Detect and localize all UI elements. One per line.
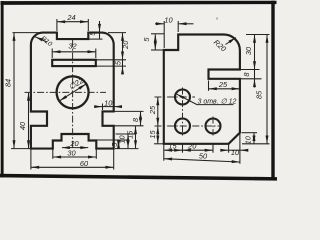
ext chamfer top xyxy=(242,132,258,134)
dim 24 xyxy=(57,21,88,23)
hole bottom-left D12 xyxy=(175,119,190,134)
svg-text:15: 15 xyxy=(148,130,157,139)
ext bottom corner xyxy=(163,144,165,161)
dim 25 left xyxy=(157,97,159,125)
dim 8 right xyxy=(254,70,256,79)
ext notch bottom right xyxy=(114,125,144,127)
centerline holes vertical left xyxy=(182,88,184,136)
svg-text:50: 50 xyxy=(199,151,208,160)
dim 30 xyxy=(53,156,96,158)
slot 32x5 xyxy=(52,60,96,66)
dim 32 xyxy=(53,51,96,53)
border frame right xyxy=(271,1,274,181)
centerline horizontal left view xyxy=(25,91,107,93)
ext 5 bottom xyxy=(151,49,164,51)
circle D22 xyxy=(57,76,89,108)
svg-text:40: 40 xyxy=(18,121,27,130)
ext hole1 down xyxy=(182,144,184,153)
svg-text:15: 15 xyxy=(168,141,177,150)
ext 32 right xyxy=(95,49,97,59)
border frame bottom xyxy=(0,174,277,181)
ext step 134 xyxy=(116,133,137,135)
dim 10 chamfer v xyxy=(253,133,255,143)
dim 10 notch left part xyxy=(96,106,103,108)
centerline vertical left view xyxy=(72,40,74,148)
labels left figure xyxy=(3,13,140,168)
leader R10 xyxy=(35,37,47,42)
svg-text:20: 20 xyxy=(69,139,79,148)
dim 10 bottom right arrow xyxy=(240,149,246,151)
ext top-right xyxy=(108,32,126,34)
plate body outline right view xyxy=(164,35,240,144)
dim 20 bottom xyxy=(62,147,88,149)
plate body outline left view xyxy=(31,33,114,149)
leader R20 xyxy=(226,38,236,45)
dim 10 notch mid xyxy=(103,106,114,108)
ext 10 left xyxy=(163,21,165,48)
ext bottom right xyxy=(115,148,139,150)
svg-text:25: 25 xyxy=(218,80,228,89)
dim 10 notch right part xyxy=(114,106,121,108)
ext bottom right for 85 xyxy=(242,143,270,145)
ext step 140.5 xyxy=(97,139,130,141)
svg-text:10: 10 xyxy=(164,15,173,24)
svg-text:60: 60 xyxy=(80,159,89,168)
ext slot-bottom right xyxy=(96,65,126,67)
leader 3 holes xyxy=(177,94,197,104)
border frame left xyxy=(1,1,4,178)
leader shelf xyxy=(197,104,234,106)
centerline top hole horizontal xyxy=(155,96,196,98)
labels right figure xyxy=(142,15,264,160)
ext 10 right xyxy=(177,21,179,32)
dim 5 slot xyxy=(122,60,124,66)
ext hole2 down xyxy=(212,144,214,153)
ext 32 left xyxy=(51,49,53,59)
dim 10 bottom mid xyxy=(229,149,240,151)
dim 10 step xyxy=(127,134,129,148)
dim 10 bottom left arrow xyxy=(222,149,229,151)
ext notch10 xyxy=(102,104,104,111)
ext 24 left xyxy=(56,19,58,31)
dim 25 slot xyxy=(209,88,240,90)
svg-text:85: 85 xyxy=(255,90,264,99)
hole top D12 xyxy=(175,90,190,105)
dim 10 top right part xyxy=(179,23,194,25)
dim 20 right xyxy=(122,33,124,59)
ext bottom-left xyxy=(11,148,31,150)
dim 10 top left part xyxy=(155,23,164,25)
svg-text:25: 25 xyxy=(148,105,157,115)
dim 85 xyxy=(266,35,268,143)
svg-text:3 отв. ∅ 12: 3 отв. ∅ 12 xyxy=(198,98,237,105)
svg-text:10: 10 xyxy=(231,148,240,157)
svg-text:20: 20 xyxy=(121,40,130,50)
svg-text:15: 15 xyxy=(125,130,134,139)
dim 15 left xyxy=(157,126,159,143)
dim notch5 tail xyxy=(99,32,101,39)
ext 25 slot right xyxy=(239,81,241,91)
centerline bottom holes horizontal xyxy=(155,125,222,127)
svg-text:32: 32 xyxy=(68,42,76,51)
dim 84 xyxy=(13,33,15,148)
svg-text:10: 10 xyxy=(244,135,253,144)
svg-text:30: 30 xyxy=(244,46,253,55)
ext notch top right xyxy=(114,110,144,112)
ext top right xyxy=(246,34,270,36)
ext 24 right xyxy=(87,19,89,31)
dim 8 lower arrow xyxy=(254,79,256,87)
border frame top xyxy=(1,1,277,5)
dim 5 left xyxy=(154,34,156,49)
speck xyxy=(216,17,218,19)
dim 50 bottom xyxy=(164,159,239,162)
ext right down xyxy=(239,133,241,164)
dim 30 right xyxy=(254,35,256,69)
centerline hole vertical right xyxy=(212,117,214,136)
ext slot-top right xyxy=(96,59,126,61)
hole bottom-right D12 xyxy=(206,119,221,134)
ext slot bottom right xyxy=(241,78,262,80)
ext 30 left xyxy=(52,149,54,159)
ext 30 right xyxy=(95,149,97,159)
ext 60 right xyxy=(113,149,115,170)
dim 20 bottom xyxy=(183,149,213,151)
dim 15 step xyxy=(135,126,137,148)
ext slot top right xyxy=(241,69,260,71)
ext 25 slot left xyxy=(208,81,210,91)
dim 15 bottom xyxy=(164,149,182,151)
ext bottom left for 15 xyxy=(154,143,164,145)
dim 40 xyxy=(28,93,30,148)
ext 5 top xyxy=(151,33,164,35)
ext notch5 xyxy=(88,38,102,40)
dim notch5 xyxy=(99,21,101,32)
ext chamfer down xyxy=(228,144,230,153)
svg-text:30: 30 xyxy=(67,149,76,158)
leader D22 diagonal xyxy=(60,84,86,101)
svg-text:24: 24 xyxy=(66,13,75,22)
svg-text:20: 20 xyxy=(187,141,197,150)
svg-text:10: 10 xyxy=(104,98,113,107)
dim 5 step xyxy=(118,141,120,148)
ext 60 left xyxy=(30,149,32,170)
dim 5 slot tail arrow xyxy=(122,67,124,74)
ext top-left xyxy=(13,32,43,34)
dim 60 xyxy=(31,166,113,168)
svg-text:84: 84 xyxy=(3,79,12,87)
dim 8 xyxy=(140,112,142,126)
